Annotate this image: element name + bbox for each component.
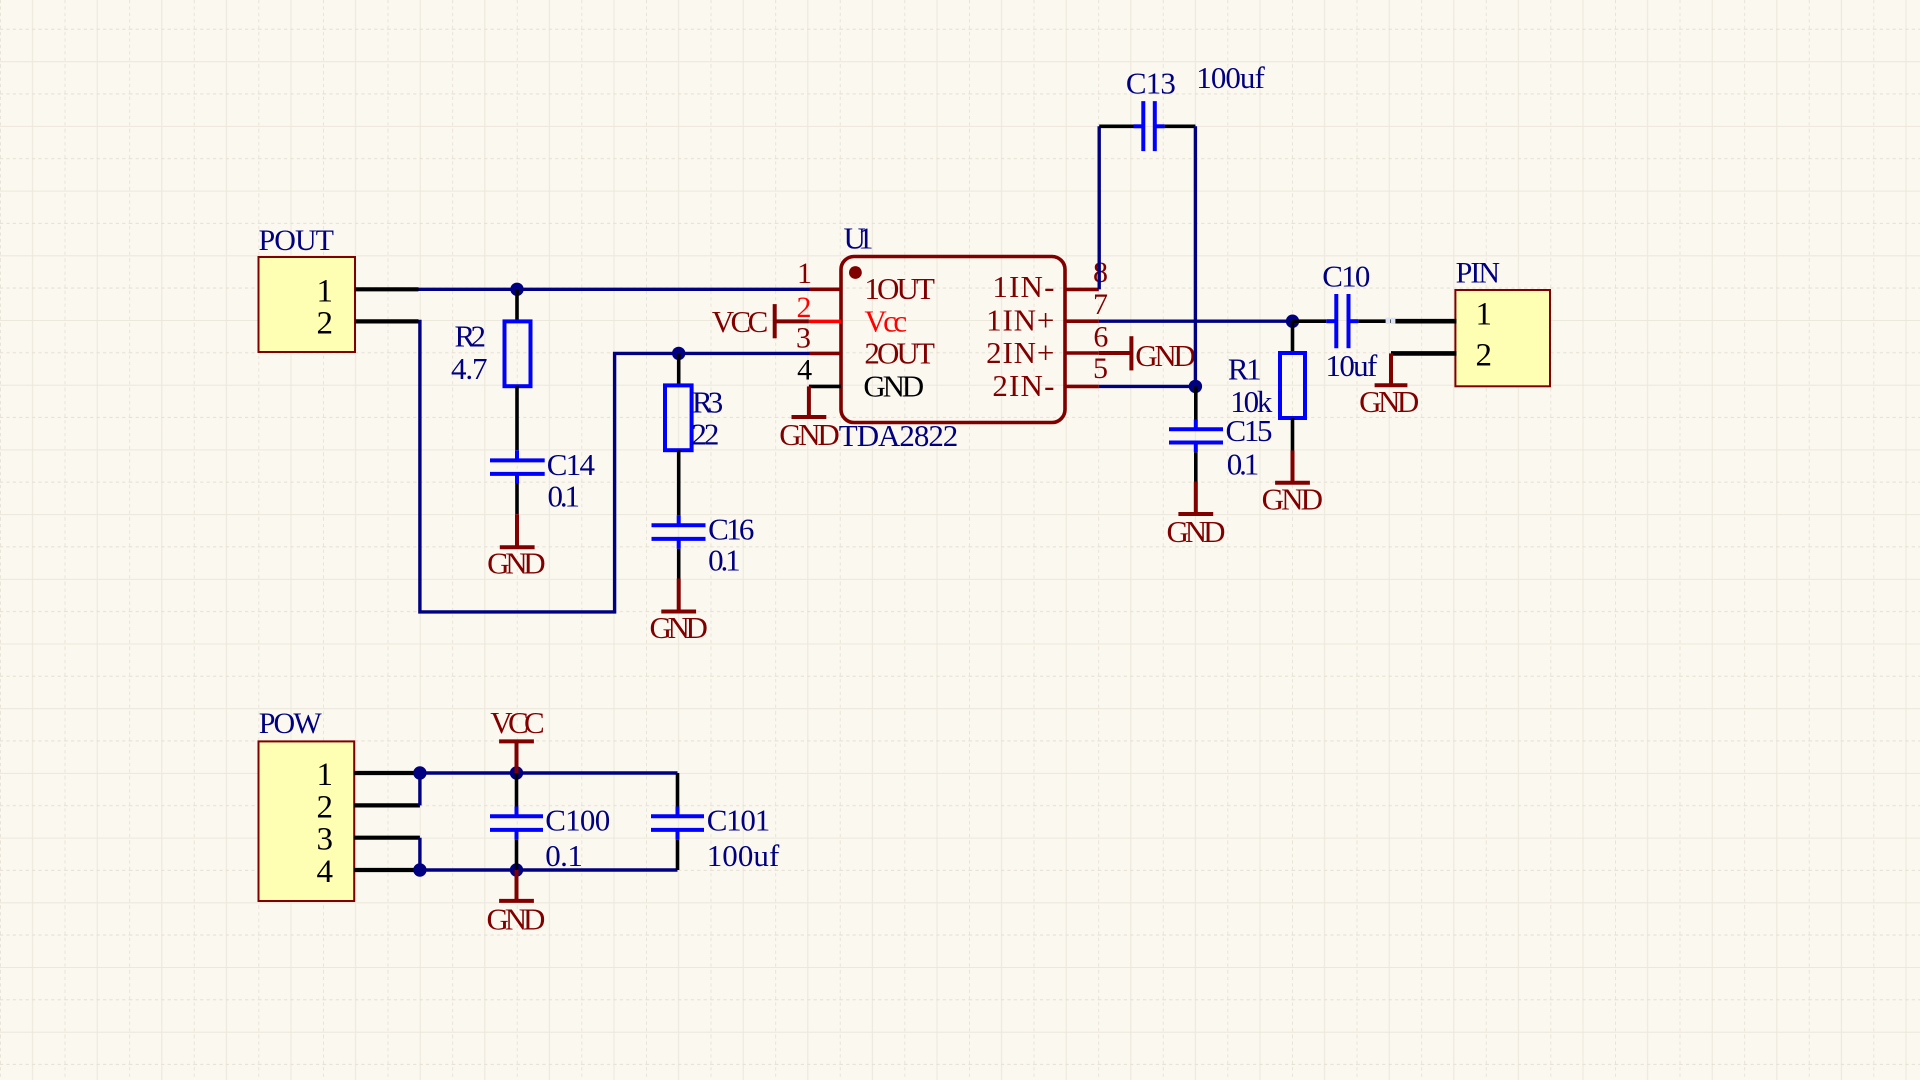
resistor R1 [1228, 321, 1305, 450]
capacitor C15 [1169, 386, 1273, 481]
POUT pin 2 [317, 306, 419, 342]
svg-text:C10: C10 [1322, 258, 1370, 293]
svg-text:VCC: VCC [712, 304, 769, 339]
IC U1 body [841, 257, 1065, 423]
ground GND (POW) [487, 870, 546, 937]
svg-text:C101: C101 [707, 803, 771, 838]
svg-text:R1: R1 [1228, 352, 1262, 387]
svg-text:C13: C13 [1126, 66, 1176, 101]
capacitor C10 [1293, 258, 1392, 383]
POW pin 3 [317, 822, 420, 858]
POW pin 2 [317, 789, 420, 825]
svg-text:2: 2 [317, 789, 334, 825]
PIN pin 1 [1391, 297, 1492, 333]
svg-text:GND: GND [1262, 482, 1323, 517]
svg-text:10uf: 10uf [1326, 348, 1378, 383]
svg-text:C100: C100 [545, 803, 610, 838]
capacitor C16 [652, 511, 755, 578]
svg-text:R3: R3 [692, 385, 723, 420]
U1 pin 5 (2IN-) [992, 352, 1108, 403]
svg-text:7: 7 [1093, 288, 1108, 321]
svg-text:100uf: 100uf [1196, 60, 1265, 95]
svg-text:6: 6 [1093, 320, 1108, 353]
POW pin 4 [317, 854, 420, 890]
connector POUT [259, 224, 356, 352]
resistor R2 [451, 289, 531, 450]
svg-text:5: 5 [1093, 352, 1108, 385]
ground GND (PIN pin 2) [1359, 353, 1419, 419]
svg-text:2: 2 [797, 291, 812, 324]
svg-text:3: 3 [796, 322, 811, 355]
svg-text:GND: GND [779, 417, 840, 452]
svg-text:0.1: 0.1 [1227, 447, 1260, 482]
svg-text:PIN: PIN [1456, 257, 1501, 290]
svg-text:1: 1 [317, 274, 334, 310]
power port VCC (U1 pin 2) [712, 304, 809, 339]
svg-text:0.1: 0.1 [545, 838, 583, 873]
svg-text:VCC: VCC [490, 705, 544, 740]
PIN pin 2 [1391, 338, 1492, 374]
wire artifact marks near PIN pin 1 [1386, 318, 1396, 324]
U1 pin 8 (1IN-) [992, 256, 1108, 304]
capacitor C100 [490, 773, 610, 873]
U1 pin 2 (Vcc) [797, 291, 908, 339]
ground GND (U1 pin 4) [779, 386, 840, 452]
U1 pin 3 (2OUT) [796, 322, 935, 371]
svg-text:GND: GND [863, 368, 924, 403]
junction at C15 top [1189, 380, 1202, 393]
wire POW.2 up to pin1 row [418, 773, 421, 805]
svg-text:POW: POW [259, 707, 323, 740]
wire POW.3 down to pin4 row [418, 838, 421, 870]
svg-text:100uf: 100uf [707, 838, 780, 873]
svg-text:GND: GND [487, 902, 546, 937]
capacitor C101 [651, 773, 780, 873]
svg-text:GND: GND [1167, 514, 1226, 549]
power port VCC (POW) [490, 705, 544, 773]
svg-text:0.1: 0.1 [548, 479, 581, 514]
svg-text:10k: 10k [1230, 384, 1273, 419]
svg-text:3: 3 [317, 822, 334, 858]
svg-text:POUT: POUT [259, 224, 335, 257]
svg-text:C14: C14 [547, 447, 596, 482]
svg-text:1: 1 [1476, 297, 1493, 333]
junction at R2 top [510, 283, 523, 296]
svg-text:4: 4 [797, 354, 812, 387]
POUT pin 1 [317, 274, 419, 310]
svg-text:TDA2822: TDA2822 [839, 418, 959, 453]
svg-text:R2: R2 [455, 318, 487, 353]
svg-text:0.1: 0.1 [708, 543, 741, 578]
connector POW [259, 707, 355, 901]
wire U1.5 to C15 node [1099, 385, 1196, 388]
POW pin 1 [317, 757, 420, 793]
svg-text:GND: GND [1135, 338, 1196, 373]
svg-text:C16: C16 [708, 511, 754, 546]
wire POUT.2 to U1.3 [419, 321, 810, 612]
svg-text:Vcc: Vcc [864, 304, 907, 339]
ground GND (C15) [1167, 482, 1226, 550]
svg-text:2OUT: 2OUT [864, 336, 935, 371]
U1 pin 6 (2IN+) [986, 320, 1108, 370]
junction GND node [510, 863, 523, 876]
junction at R3 top [672, 347, 685, 360]
junction VCC node [510, 766, 523, 779]
junction at R1 top [1286, 315, 1299, 328]
junction POW pin1 [413, 766, 426, 779]
wire C13 to node at U1.5 [1194, 126, 1197, 386]
svg-text:GND: GND [487, 546, 546, 581]
U1 pin 7 (1IN+) [986, 288, 1108, 337]
U1 pin 4 (GND) [797, 354, 924, 404]
ground port GND (U1 pin 6) [1099, 336, 1196, 373]
wire U1.8 to C13 [1097, 126, 1100, 289]
svg-text:GND: GND [649, 610, 708, 645]
wire VCC rail (top) [420, 771, 678, 774]
svg-text:2: 2 [1476, 338, 1493, 374]
svg-text:2IN+: 2IN+ [986, 335, 1054, 370]
svg-text:1: 1 [797, 257, 812, 290]
svg-text:4.7: 4.7 [451, 351, 488, 386]
capacitor C14 [490, 447, 596, 514]
ground GND (C16) [649, 579, 708, 646]
svg-text:1IN+: 1IN+ [986, 303, 1054, 338]
wire POUT.1 to U1.1 [419, 288, 810, 291]
svg-text:1: 1 [317, 757, 334, 793]
U1 pin 1 (1OUT) [797, 257, 935, 306]
resistor R3 [665, 353, 723, 515]
svg-text:4: 4 [317, 854, 334, 890]
svg-text:GND: GND [1359, 384, 1419, 419]
svg-text:1IN-: 1IN- [992, 269, 1054, 304]
ground GND (C14) [487, 514, 546, 580]
svg-text:2IN-: 2IN- [992, 368, 1054, 403]
svg-text:1OUT: 1OUT [864, 271, 935, 306]
connector PIN [1455, 257, 1550, 387]
svg-text:22: 22 [691, 416, 719, 451]
svg-text:U1: U1 [844, 221, 874, 256]
junction POW pin4 [413, 863, 426, 876]
wire GND rail (bottom) [420, 868, 678, 871]
wire U1.7 to C10/PIN [1099, 320, 1293, 323]
svg-text:2: 2 [317, 306, 334, 342]
ground GND (R1) [1262, 451, 1323, 517]
capacitor C13 [1099, 60, 1265, 151]
